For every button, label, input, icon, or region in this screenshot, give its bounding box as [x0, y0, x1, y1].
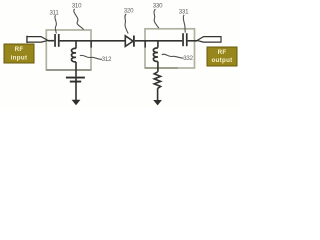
resistor zigzag	[154, 72, 160, 89]
box 330 (matching network outline)	[145, 29, 195, 68]
wire L332 to resistor	[157, 62, 159, 72]
stub on box 310 right edge	[90, 41, 92, 48]
wire drop to L312	[75, 41, 77, 49]
leader 310	[74, 9, 84, 30]
wire L312 to ground bars	[75, 62, 77, 77]
ground bar long	[66, 77, 85, 79]
svg-text:input: input	[11, 55, 28, 62]
inductor 312	[72, 48, 77, 62]
wire through ground bars	[75, 76, 77, 83]
wire diode to C331	[135, 40, 182, 42]
svg-text:312: 312	[102, 56, 112, 63]
inductor 332	[153, 48, 158, 62]
ground bar short	[70, 81, 81, 83]
diode 320	[125, 36, 135, 47]
svg-text:331: 331	[179, 9, 189, 16]
stub on box 330 left edge	[144, 41, 146, 48]
leader 332	[162, 54, 184, 58]
svg-text:RF: RF	[218, 49, 227, 56]
wire to down arrow	[75, 83, 77, 101]
leader 331	[183, 15, 185, 33]
leader 320	[125, 14, 128, 34]
svg-text:RF: RF	[15, 46, 24, 53]
box 330 bottom edge accent	[145, 67, 178, 69]
leader 311	[55, 15, 57, 33]
svg-text:330: 330	[153, 3, 163, 10]
svg-text:320: 320	[124, 8, 134, 15]
wire C311 to diode	[60, 40, 126, 42]
wire C331 to output arrow	[188, 40, 198, 42]
RF input taper arrow	[27, 37, 48, 43]
wire drop to L332	[157, 41, 159, 48]
capacitor 311	[54, 34, 59, 47]
RF input port box	[4, 44, 34, 63]
RF output port box	[207, 47, 237, 66]
box 310 bottom edge accent	[46, 69, 91, 71]
svg-text:332: 332	[183, 55, 193, 62]
svg-text:output: output	[211, 57, 232, 64]
svg-text:310: 310	[72, 3, 82, 10]
svg-text:311: 311	[49, 9, 59, 16]
box 310 (matching network outline)	[46, 30, 91, 70]
RF output taper arrow	[197, 37, 221, 43]
leader 330	[154, 9, 159, 28]
RF input taper arrow end bar	[26, 36, 28, 43]
down arrowhead right	[153, 100, 162, 105]
wire resistor to down arrow	[157, 88, 159, 100]
wire arrow tip to C311	[48, 40, 54, 42]
down arrowhead left	[72, 100, 81, 105]
leader 312	[80, 55, 102, 59]
capacitor 331	[182, 33, 187, 46]
